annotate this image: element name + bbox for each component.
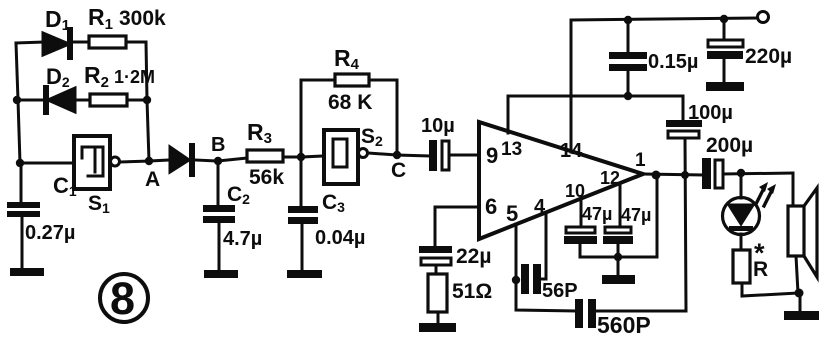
node dot LED top: [737, 169, 745, 177]
node dot output pin1: [652, 171, 661, 180]
node C dot: [393, 151, 401, 159]
S2 inner pulse symbol: [333, 139, 347, 167]
svg-text:10µ: 10µ: [421, 115, 455, 137]
LED flash arrows: [756, 188, 764, 204]
capacitor 10u: [429, 140, 437, 171]
svg-text:47µ: 47µ: [582, 204, 612, 224]
node dot speaker bottom: [795, 289, 804, 298]
node dot rail 220u: [720, 15, 728, 23]
S2 output bubble: [359, 149, 368, 158]
svg-text:C: C: [391, 159, 406, 182]
S1 output bubble: [111, 157, 120, 166]
ground 47u: [602, 275, 635, 284]
wire 200u to speaker: [723, 173, 793, 174]
svg-text:1: 1: [635, 150, 646, 171]
wire 47u b to junction: [617, 244, 620, 257]
wire 47u bottoms: [580, 176, 657, 257]
resistor R3: [247, 150, 283, 162]
ground C2: [204, 270, 238, 278]
node dot right D2: [143, 96, 151, 104]
wire bottom right: [742, 293, 799, 296]
svg-text:0.04µ: 0.04µ: [315, 227, 365, 249]
speaker LS1: [792, 173, 795, 206]
ground C3: [287, 270, 322, 278]
node dot main line left: [16, 159, 24, 167]
op-amp U1 triangle: [479, 122, 643, 239]
wire D1 to R1: [73, 41, 89, 44]
wire S1 to node A: [120, 161, 149, 162]
svg-text:10: 10: [565, 181, 585, 201]
capacitor C2: [217, 161, 220, 205]
svg-text:100µ: 100µ: [688, 102, 733, 124]
capacitor 0.15u: [627, 20, 630, 52]
pin14 wire: [570, 20, 573, 152]
svg-text:14: 14: [560, 140, 583, 162]
ground C1: [10, 268, 44, 276]
wire R4 to right rail: [369, 80, 397, 155]
svg-text:5: 5: [506, 201, 518, 226]
svg-text:8: 8: [110, 273, 135, 324]
wire 100u down to 560p: [685, 138, 686, 311]
box S2: [324, 130, 358, 184]
junction dot R4/C3: [297, 153, 305, 161]
capacitor 220u: [723, 19, 726, 40]
diode D1: [43, 33, 69, 55]
resistor R2: [90, 94, 127, 106]
wire 10u to pin9: [449, 154, 479, 157]
svg-text:R21·2M: R21·2M: [84, 62, 155, 91]
node dot rail 0.15u: [624, 16, 632, 24]
resistor R4: [335, 74, 369, 86]
svg-text:56P: 56P: [542, 280, 578, 302]
capacitor 56p: [521, 264, 529, 294]
wire down to 100u: [682, 96, 685, 120]
svg-text:0.15µ: 0.15µ: [648, 51, 698, 73]
wire S2 to node C: [368, 153, 397, 155]
wire output to 200u: [643, 174, 703, 175]
svg-text:4.7µ: 4.7µ: [223, 228, 262, 250]
svg-text:9: 9: [486, 143, 498, 168]
junction dot output cross: [681, 171, 689, 179]
svg-text:R1300k: R1300k: [88, 4, 166, 33]
capacitor C3: [300, 157, 303, 206]
ground speaker: [799, 293, 802, 311]
svg-text:51Ω: 51Ω: [452, 280, 492, 303]
node B dot: [214, 157, 222, 165]
svg-text:6: 6: [485, 194, 497, 219]
resistor R*: [733, 250, 750, 283]
node A dot: [145, 157, 153, 165]
wire R1 to right rail: [126, 41, 146, 44]
svg-text:12: 12: [600, 168, 620, 188]
svg-text:B: B: [211, 134, 225, 156]
LED D4: [740, 173, 743, 198]
svg-text:560P: 560P: [597, 312, 651, 338]
capacitor 560p: [575, 299, 583, 328]
wire diode to node B: [195, 160, 218, 161]
wire pin13 horizontal: [508, 95, 683, 98]
capacitor 200u: [702, 158, 711, 189]
resistor R1: [89, 36, 126, 48]
node dot pin5: [512, 276, 520, 284]
wire main line to S1: [20, 162, 74, 165]
capacitor C1: [20, 163, 23, 202]
svg-text:22µ: 22µ: [456, 245, 491, 268]
capacitor 100u: [666, 120, 702, 127]
pin10 wire: [580, 199, 583, 227]
resistor 51ohm: [428, 274, 447, 312]
R4 feedback loop left rail: [301, 80, 335, 157]
svg-text:56k: 56k: [249, 166, 284, 189]
capacitor 22u: [419, 246, 452, 253]
svg-text:68 K: 68 K: [328, 91, 372, 114]
pin5 wire: [516, 224, 576, 311]
supply terminal: [758, 12, 769, 23]
box S1: [74, 136, 110, 189]
diode D3: [170, 147, 189, 172]
supply rail top: [571, 18, 757, 20]
svg-text:47µ: 47µ: [621, 205, 651, 225]
pin12 wire: [619, 184, 622, 227]
wire R2 to right rail: [127, 99, 147, 102]
wire R3 to junction: [283, 156, 301, 159]
node dot 47u junction: [614, 253, 622, 261]
wire B to R3: [218, 158, 247, 161]
wire D2 branch left: [17, 99, 45, 102]
svg-text:A: A: [145, 168, 160, 191]
ground 51ohm: [419, 323, 456, 332]
svg-text:200µ: 200µ: [706, 134, 753, 157]
wire to ground 47u: [617, 257, 620, 275]
node dot left D2: [13, 96, 21, 104]
pin13 wire: [507, 96, 510, 133]
wire A to diode: [149, 160, 170, 161]
circled 8 badge: [100, 274, 148, 322]
svg-text:13: 13: [501, 139, 522, 160]
svg-text:4: 4: [534, 196, 546, 218]
ground 220u: [706, 82, 744, 91]
capacitor 47u b: [605, 227, 631, 233]
pin4 wire: [541, 213, 546, 279]
wire C to 10u: [397, 155, 429, 156]
capacitor 47u a: [566, 227, 595, 233]
svg-text:0.27µ: 0.27µ: [25, 222, 75, 244]
wire right rail: [146, 42, 149, 161]
node dot 0.15u bottom: [624, 92, 632, 100]
diode D2: [43, 88, 49, 112]
wire left rail: [16, 43, 20, 163]
S1 inner pulse symbol: [82, 147, 103, 176]
wire 560p right: [596, 310, 686, 313]
svg-text:220µ: 220µ: [745, 45, 792, 68]
wire junction to S2: [301, 156, 324, 157]
pin6 wire: [435, 207, 479, 246]
svg-text:*: *: [754, 238, 765, 268]
wire D2 to R2: [75, 99, 90, 102]
wire D1 branch left: [16, 42, 43, 43]
